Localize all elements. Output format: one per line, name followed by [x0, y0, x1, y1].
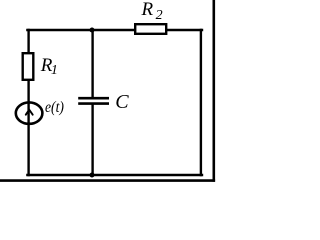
node: bottom junction dot: [90, 173, 95, 178]
resistor R1: [23, 53, 34, 80]
label e(t): [45, 99, 64, 117]
resistor R2: [135, 24, 166, 34]
source arrow head: [26, 110, 33, 115]
border: bottom edge line: [0, 179, 215, 182]
wire: bottom horizontal: [27, 174, 202, 176]
border: right edge line: [213, 0, 216, 182]
wire: middle branch lower (from capacitor): [91, 104, 93, 175]
source e(t) circle: [16, 102, 43, 123]
label C: [115, 91, 128, 114]
wire: top horizontal: [27, 29, 202, 31]
node: top junction dot: [90, 28, 95, 33]
capacitor C bottom plate: [78, 102, 109, 105]
label R1: [41, 55, 53, 77]
wire: right vertical: [200, 30, 202, 175]
wire: middle branch upper (to capacitor): [91, 30, 93, 98]
label R2: [142, 0, 154, 21]
capacitor C top plate: [78, 97, 109, 100]
wire: left vertical: [27, 30, 29, 175]
